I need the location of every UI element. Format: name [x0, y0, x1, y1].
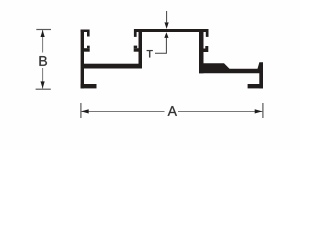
dimension A label [168, 106, 177, 116]
dimension A left arrow [81, 109, 89, 113]
profile middle lip [134, 32, 137, 37]
profile right arm [204, 49, 209, 53]
dimension T up arrow [164, 32, 168, 38]
profile left top arm [81, 30, 90, 33]
profile middle tooth [134, 46, 138, 49]
profile bottom flange [199, 62, 263, 73]
profile middle stem [139, 29, 143, 69]
dimension B down arrow [41, 81, 45, 88]
dimension B line [42, 30, 44, 53]
dimension A right arrow [255, 109, 263, 113]
profile left top lip [87, 32, 90, 37]
dimension B top tick [36, 29, 51, 31]
profile middle arm [134, 48, 142, 52]
profile left wall [81, 30, 84, 89]
dimension T upper line [166, 11, 168, 22]
dimension A left tick [80, 103, 82, 118]
dimension T label [147, 50, 153, 57]
dimension B up arrow [41, 30, 45, 37]
profile right stem [199, 29, 204, 73]
profile top plate [134, 29, 209, 32]
dimension A right tick [262, 103, 264, 118]
profile right leg [259, 63, 263, 89]
profile right lip [206, 32, 209, 37]
dimension B bottom tick [36, 88, 51, 90]
dimension A line [81, 111, 164, 113]
profile left foot [81, 84, 97, 88]
profile right tooth [205, 46, 208, 49]
dimension T leader [155, 38, 166, 53]
profile bottom hook bar [248, 84, 263, 88]
profile left tooth [87, 46, 90, 49]
dimension T down arrow [165, 22, 169, 29]
profile web [84, 64, 142, 69]
dimension B label [39, 56, 46, 66]
profile left bottom arm [84, 48, 90, 52]
